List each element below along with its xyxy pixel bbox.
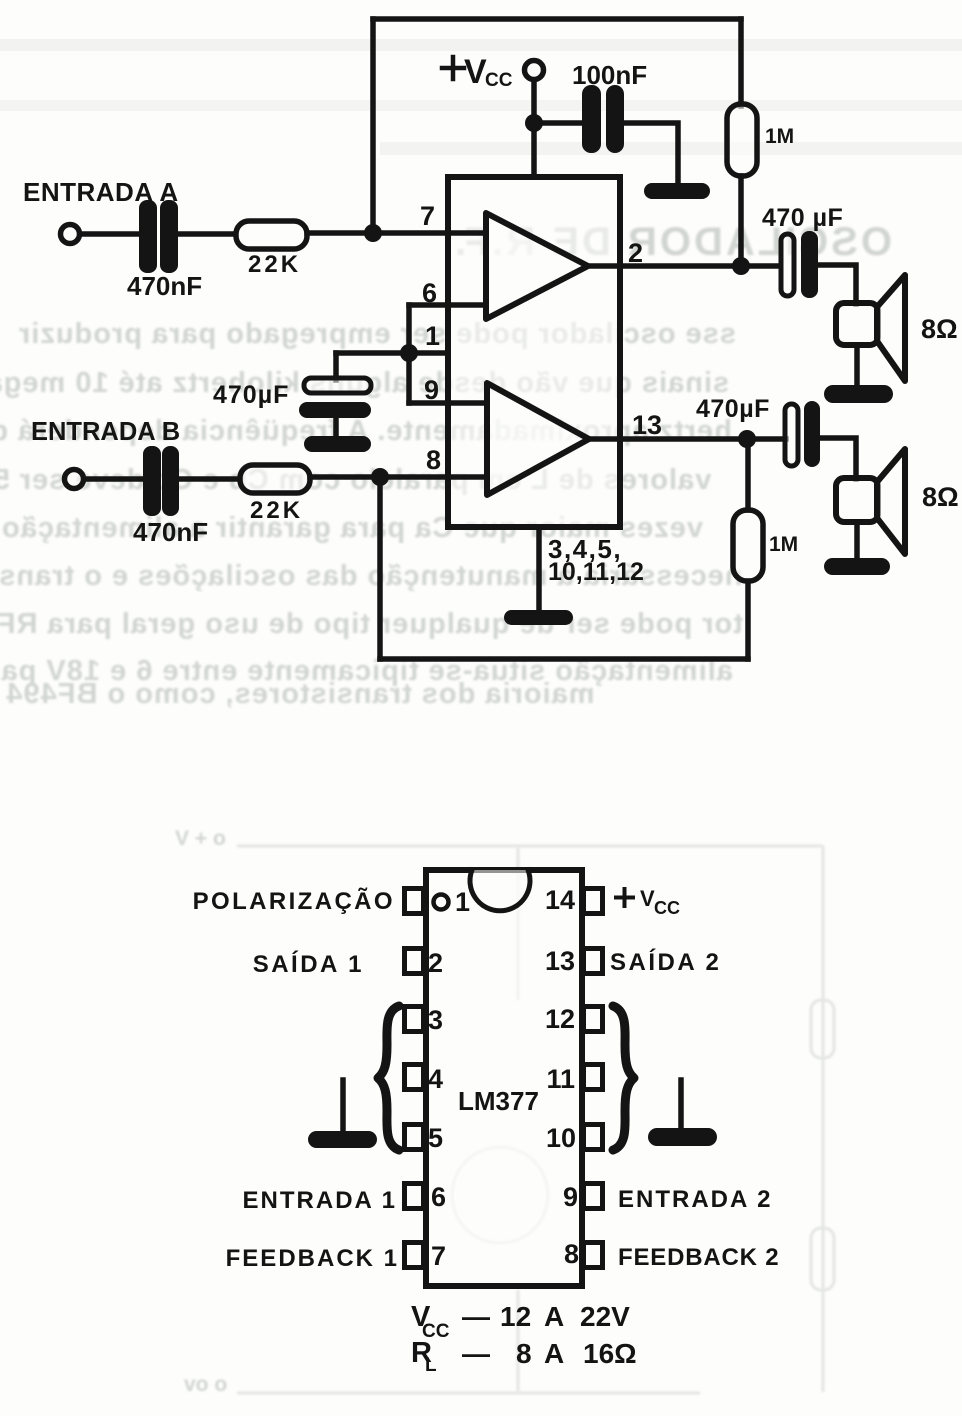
svg-text:11: 11 — [546, 1064, 575, 1094]
wire R4 to output node B — [745, 439, 751, 510]
svg-text:2: 2 — [628, 238, 643, 268]
junction Vcc node — [525, 114, 543, 132]
wire ground right — [678, 1080, 684, 1130]
pin 3 pad — [405, 1007, 424, 1032]
wire right vertical from rail to R2 — [738, 19, 744, 106]
wire C4 to R3 — [179, 476, 239, 482]
label +Vcc pin 14 — [616, 889, 633, 906]
svg-text:1: 1 — [455, 887, 470, 917]
svg-text:sse oscilador pode ser emprega: sse oscilador pode ser empregado para pr… — [18, 318, 736, 350]
capacitor C1 470nF — [139, 200, 178, 273]
resistor R4 1M channel B — [733, 510, 763, 581]
svg-text:CC: CC — [485, 70, 513, 91]
svg-text:470µF: 470µF — [696, 395, 770, 423]
wire IC ground pins — [536, 530, 542, 612]
svg-text:7: 7 — [431, 1241, 446, 1271]
wire pin 1 bias — [336, 350, 448, 356]
svg-text:ENTRADA A: ENTRADA A — [23, 177, 179, 207]
svg-text:470µF: 470µF — [213, 381, 289, 409]
capacitor C6 470uF electrolytic — [785, 404, 798, 466]
wire bottom rail up to R4 — [745, 581, 751, 659]
wire R1 to pin 7 — [307, 230, 486, 236]
svg-text:tor pode ser de qualquer tipo: tor pode ser de qualquer tipo de uso ger… — [0, 608, 743, 640]
pin 1 index dot — [434, 895, 449, 910]
wire bracket pins 6-9 — [406, 305, 412, 403]
svg-text:L: L — [425, 1355, 437, 1376]
speaker LS1 — [836, 275, 905, 381]
junction output node A — [732, 257, 750, 275]
svg-text:CC: CC — [654, 898, 680, 918]
svg-text:7: 7 — [420, 201, 435, 231]
junction node B (pin8 / feedback) — [371, 468, 389, 486]
svg-text:SAÍDA 1: SAÍDA 1 — [253, 950, 364, 978]
pin 2 pad — [405, 949, 424, 974]
resistor R1 22K — [236, 221, 307, 249]
svg-text:POLARIZAÇÃO: POLARIZAÇÃO — [193, 887, 395, 915]
package notch — [470, 870, 530, 911]
svg-text:vo o: vo o — [184, 1373, 227, 1396]
wire Vcc node to C3 — [534, 120, 582, 126]
terminal +Vcc — [525, 61, 544, 80]
pin 12 pad — [584, 1007, 603, 1032]
ground speaker 1 — [824, 385, 893, 403]
capacitor C4 470nF — [143, 446, 179, 516]
svg-text:470 µF: 470 µF — [762, 204, 843, 232]
resistor R2 1M channel A — [727, 104, 757, 176]
svg-text:10: 10 — [546, 1123, 576, 1153]
svg-text:8: 8 — [564, 1239, 579, 1269]
wire C3 to ground — [624, 123, 678, 184]
wire pin 6 — [409, 302, 486, 308]
svg-text:470nF: 470nF — [133, 517, 208, 547]
wire feedback vertical channel B — [377, 477, 383, 659]
wire input B to C4 — [84, 476, 143, 482]
op-amp U1a triangle — [486, 213, 588, 319]
resistor R3 22K — [240, 465, 310, 493]
wire R3 to pin 8 — [310, 474, 487, 480]
svg-text:12: 12 — [545, 1004, 575, 1034]
wire top feedback rail channel A — [373, 16, 741, 22]
svg-text:8Ω: 8Ω — [922, 482, 959, 512]
pin 1 pad — [405, 889, 424, 914]
junction output node B — [738, 430, 756, 448]
svg-text:FEEDBACK 1: FEEDBACK 1 — [226, 1245, 399, 1272]
pin 4 pad — [405, 1065, 424, 1090]
terminal input A — [61, 225, 80, 244]
svg-text:100nF: 100nF — [572, 60, 647, 90]
junction node A (pin7 / feedback) — [364, 224, 382, 242]
svg-text:LM377: LM377 — [458, 1086, 539, 1116]
speaker LS2 — [836, 449, 905, 554]
svg-text:FEEDBACK 2: FEEDBACK 2 — [618, 1244, 779, 1271]
wire bottom feedback rail channel B — [380, 656, 748, 662]
svg-text:—12A22V: —12A22V — [462, 1301, 630, 1332]
IC U1 LM377 body (schematic box) — [448, 177, 620, 527]
capacitor C5 470uF electrolytic — [781, 234, 794, 296]
paper texture bands (decorative, unlabeled per instructions but kept minimal) — [0, 39, 962, 51]
brace pins 10-12 right — [613, 1006, 634, 1150]
svg-text:ENTRADA B: ENTRADA B — [31, 418, 180, 446]
wire output pin 2 to C5 — [586, 263, 779, 269]
svg-text:22K: 22K — [248, 251, 301, 278]
svg-text:SAÍDA 2: SAÍDA 2 — [610, 948, 721, 976]
ground C3 — [644, 183, 710, 199]
svg-text:13: 13 — [545, 946, 575, 976]
svg-text:1M: 1M — [765, 125, 794, 148]
svg-text:8Ω: 8Ω — [921, 314, 958, 344]
wire pin1 down to C2 — [333, 353, 339, 380]
svg-text:1: 1 — [425, 321, 440, 351]
svg-text:8: 8 — [426, 445, 441, 475]
pin 14 pad — [584, 889, 603, 914]
pin 8 pad — [584, 1243, 603, 1268]
wire C6 to speaker 2 — [820, 438, 856, 479]
IC U1 LM377 DIP-14 package body — [426, 870, 582, 1286]
wire C1 to R1 — [178, 231, 235, 237]
pin 11 pad — [584, 1065, 603, 1090]
terminal input B — [65, 470, 84, 489]
capacitor C3 100nF — [582, 85, 624, 153]
svg-text:ENTRADA 2: ENTRADA 2 — [618, 1186, 772, 1213]
svg-text:10,11,12: 10,11,12 — [548, 558, 644, 586]
wire ground left — [340, 1080, 346, 1133]
wire speaker 2 to ground — [854, 522, 860, 560]
svg-text:maioria dos transistores, como: maioria dos transistores, como o BF494 — [5, 678, 594, 710]
svg-text:470nF: 470nF — [127, 271, 202, 301]
ground speaker 2 — [824, 558, 890, 575]
svg-text:6: 6 — [431, 1182, 446, 1212]
svg-text:13: 13 — [632, 410, 662, 440]
wire output pin 13 to C6 — [587, 436, 786, 442]
capacitor C2 470uF bias electrolytic — [304, 378, 371, 393]
svg-text:4: 4 — [428, 1064, 443, 1094]
ground right pins 10,11,12 — [648, 1128, 717, 1146]
svg-text:9: 9 — [563, 1182, 578, 1212]
wire input A to C1 — [80, 231, 139, 237]
ground IC pins — [504, 610, 573, 625]
wire left feedback vertical channel A — [370, 19, 376, 233]
pin 10 pad — [584, 1125, 603, 1150]
svg-text:3: 3 — [428, 1005, 443, 1035]
wire Vcc terminal to IC top — [531, 80, 537, 177]
wire R2 to output node A — [738, 176, 744, 266]
junction pin1/bracket — [400, 344, 418, 362]
svg-text:V: V — [640, 886, 655, 911]
wire C2 to ground — [333, 418, 339, 438]
pin 7 pad — [405, 1243, 424, 1268]
svg-text:—8A16Ω: —8A16Ω — [462, 1338, 637, 1369]
pin 5 pad — [405, 1125, 424, 1150]
ground C2 — [304, 436, 371, 452]
pin 9 pad — [584, 1184, 603, 1209]
svg-text:5: 5 — [428, 1123, 443, 1153]
label +Vcc — [442, 57, 464, 79]
pin 6 pad — [405, 1184, 424, 1209]
ground left pins 3,4,5 — [308, 1131, 377, 1148]
wire speaker 1 to ground — [854, 345, 860, 387]
svg-text:1M: 1M — [769, 533, 798, 556]
svg-text:ENTRADA 1: ENTRADA 1 — [243, 1187, 397, 1214]
wire C5 to speaker 1 — [818, 265, 856, 304]
svg-text:2: 2 — [428, 948, 443, 978]
svg-text:22K: 22K — [250, 497, 303, 524]
pin 13 pad — [584, 949, 603, 974]
svg-text:14: 14 — [545, 885, 575, 915]
brace pins 3-5 left — [378, 1006, 399, 1150]
svg-text:V: V — [464, 53, 487, 91]
op-amp U1b triangle — [487, 383, 589, 495]
svg-text:V + o: V + o — [175, 827, 226, 850]
wire pin 9 — [409, 400, 487, 406]
